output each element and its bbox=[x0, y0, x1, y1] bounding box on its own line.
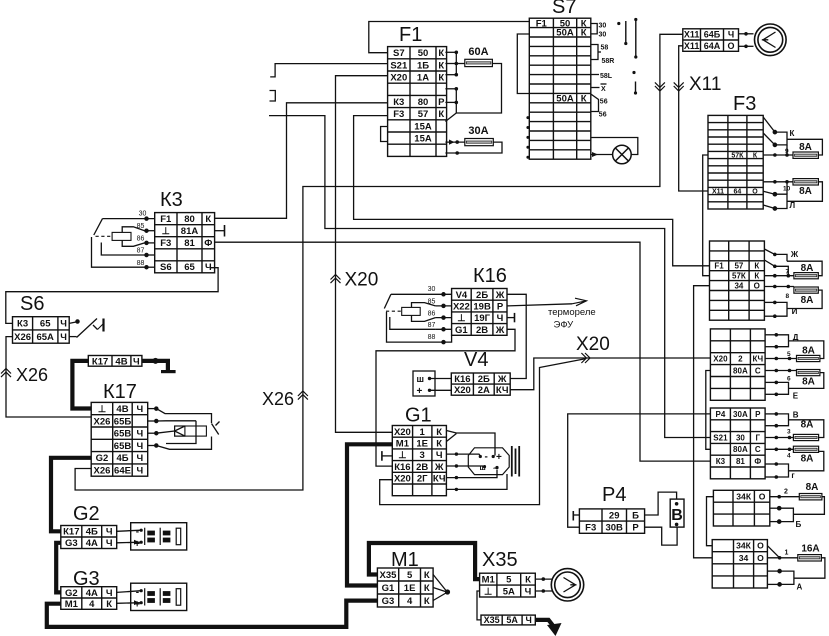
wire G1 row X20-2Г joining connector X20 bbox=[380, 359, 586, 505]
svg-text:Ч: Ч bbox=[137, 453, 144, 464]
fuse block connector table (57/34) bbox=[710, 241, 765, 320]
svg-text:⊥: ⊥ bbox=[398, 450, 407, 461]
svg-text:F3: F3 bbox=[585, 523, 596, 534]
svg-text:К: К bbox=[581, 94, 587, 105]
svg-text:К: К bbox=[581, 28, 587, 39]
svg-text:85: 85 bbox=[137, 223, 145, 230]
battery G3 symbol bbox=[131, 583, 187, 610]
wire 30А fuse loop bbox=[445, 141, 464, 143]
ground arrowhead bbox=[547, 623, 562, 636]
alternator G1 symbol bbox=[468, 446, 519, 477]
thick wire K17 row G2-4Б to battery G2 bbox=[51, 458, 91, 532]
svg-text:X26: X26 bbox=[14, 332, 31, 343]
svg-text:5А: 5А bbox=[506, 615, 518, 625]
wire X35 row 5А to ground block X35-5А bbox=[477, 591, 481, 620]
fuse block connector table (34К upper) bbox=[713, 490, 769, 526]
svg-text:X20: X20 bbox=[394, 427, 411, 438]
svg-text:F1: F1 bbox=[160, 214, 172, 225]
svg-text:9: 9 bbox=[785, 148, 789, 155]
contact б of fuse block bbox=[777, 506, 793, 523]
svg-text:Ч: Ч bbox=[436, 450, 443, 461]
svg-text:С: С bbox=[755, 366, 761, 375]
wire S7 to instrument lamp bbox=[591, 138, 638, 155]
svg-text:G1: G1 bbox=[405, 405, 432, 427]
svg-text:X20: X20 bbox=[394, 474, 411, 485]
svg-text:50А: 50А bbox=[556, 28, 574, 39]
svg-text:30А: 30А bbox=[468, 125, 488, 137]
svg-text:G2: G2 bbox=[96, 453, 109, 464]
svg-text:Ф: Ф bbox=[204, 238, 212, 249]
svg-text:6: 6 bbox=[787, 376, 791, 383]
svg-text:-: - bbox=[136, 587, 139, 598]
svg-text:50А: 50А bbox=[556, 94, 574, 105]
svg-text:2В: 2В bbox=[416, 462, 428, 473]
wire S7 row 50А to row 50А (left bracket) bbox=[517, 34, 529, 94]
svg-text:2: 2 bbox=[738, 355, 743, 364]
svg-text:Ч: Ч bbox=[106, 527, 113, 538]
svg-text:V4: V4 bbox=[456, 290, 468, 301]
terminal T-bar at P4 row 29 bbox=[573, 514, 579, 516]
svg-text:34К: 34К bbox=[736, 541, 752, 551]
svg-text:64Б: 64Б bbox=[704, 30, 721, 40]
svg-text:8А: 8А bbox=[801, 420, 814, 431]
svg-text:4А: 4А bbox=[86, 538, 98, 549]
svg-text:-: - bbox=[136, 527, 139, 538]
svg-text:80: 80 bbox=[418, 97, 429, 108]
svg-text:S6: S6 bbox=[160, 262, 172, 273]
svg-text:Ж: Ж bbox=[497, 374, 507, 385]
svg-text:5А: 5А bbox=[503, 587, 515, 598]
svg-text:Р4: Р4 bbox=[602, 484, 626, 506]
svg-text:4: 4 bbox=[407, 596, 413, 607]
contact а of fuse block bbox=[778, 569, 794, 586]
contact и of fuse block bbox=[764, 301, 774, 303]
relay K17 coil and contact symbol bbox=[148, 407, 220, 449]
connector X26 mark on lower vertical bbox=[298, 391, 308, 400]
svg-text:30В: 30В bbox=[605, 523, 623, 534]
svg-text:Ч: Ч bbox=[106, 538, 113, 549]
connector half-plug symbol bbox=[270, 91, 276, 102]
svg-text:Ч: Ч bbox=[525, 587, 532, 598]
svg-text:X26: X26 bbox=[94, 466, 111, 477]
wire V4 row X20-2А to fuse block row X20-2 via connector X20 bbox=[510, 358, 710, 390]
svg-text:Р: Р bbox=[755, 410, 761, 419]
svg-text:М1: М1 bbox=[396, 439, 410, 450]
starter M1 solenoid symbol bbox=[433, 575, 447, 592]
svg-text:К: К bbox=[424, 570, 430, 581]
svg-text:X26: X26 bbox=[94, 416, 111, 427]
svg-text:4В: 4В bbox=[116, 404, 128, 415]
svg-text:81: 81 bbox=[184, 238, 195, 249]
svg-text:64А: 64А bbox=[704, 41, 721, 51]
svg-text:К3: К3 bbox=[17, 319, 28, 330]
svg-text:К: К bbox=[438, 48, 444, 59]
fuse 8А (2) bbox=[799, 494, 822, 500]
wires G2 table to battery G2 bbox=[117, 530, 142, 531]
svg-text:X26: X26 bbox=[262, 389, 294, 409]
svg-text:О: О bbox=[757, 541, 764, 551]
svg-text:58: 58 bbox=[601, 45, 609, 52]
svg-text:Ч: Ч bbox=[106, 588, 113, 599]
svg-text:30: 30 bbox=[139, 211, 147, 218]
fuse 8А (4) bbox=[793, 446, 818, 452]
arrow to thermal relay (термореле ЭФУ) from K16 row X22-19В bbox=[507, 304, 572, 306]
connector table V4 bbox=[451, 373, 510, 395]
contact к of F3 bbox=[763, 117, 787, 147]
svg-text:X11: X11 bbox=[684, 30, 700, 40]
svg-text:58L: 58L bbox=[600, 73, 613, 80]
svg-text:X20: X20 bbox=[454, 385, 471, 396]
svg-text:64Е: 64Е bbox=[114, 466, 131, 477]
svg-text:X35: X35 bbox=[380, 570, 398, 581]
svg-text:50: 50 bbox=[418, 48, 429, 59]
svg-text:85: 85 bbox=[428, 298, 436, 305]
thick wire G3 row М1-4 to starter M1 row G3-4 along bottom bbox=[47, 601, 378, 627]
svg-text:О: О bbox=[759, 491, 766, 501]
svg-text:Ф: Ф bbox=[754, 457, 761, 466]
wire F3 fuse 10 row bbox=[763, 181, 793, 183]
svg-text:Ч: Ч bbox=[60, 319, 67, 330]
svg-text:В: В bbox=[671, 507, 683, 524]
svg-text:88: 88 bbox=[428, 334, 436, 341]
svg-text:+: + bbox=[496, 452, 502, 463]
svg-text:⊥: ⊥ bbox=[98, 404, 107, 415]
wires V4 box to V4 table bbox=[430, 378, 452, 380]
relay K17 connector table bbox=[91, 402, 148, 476]
starter motor circle symbol bbox=[551, 569, 583, 601]
connector X20 mark on vertical wire bbox=[331, 275, 341, 284]
svg-text:К: К bbox=[525, 575, 531, 586]
S7 terminal stubs 30/30 bbox=[591, 24, 597, 34]
svg-text:К3: К3 bbox=[160, 189, 183, 211]
svg-text:2А: 2А bbox=[478, 385, 490, 396]
svg-text:Ч: Ч bbox=[728, 30, 734, 40]
svg-text:2Г: 2Г bbox=[417, 474, 428, 485]
fuse 60А bbox=[465, 59, 493, 66]
svg-text:М1: М1 bbox=[65, 599, 79, 610]
svg-text:65Б: 65Б bbox=[114, 416, 132, 427]
S7 terminal stub X bbox=[591, 87, 600, 89]
fuse 8А (3) bbox=[793, 434, 818, 440]
contact в of fuse block bbox=[765, 413, 776, 415]
svg-text:КЧ: КЧ bbox=[433, 474, 446, 485]
wire X11 row 64Б to K17 row X26-64Е via connectors X11/X26 bbox=[75, 34, 683, 490]
svg-text:К3: К3 bbox=[716, 457, 726, 466]
svg-text:К16: К16 bbox=[473, 265, 507, 287]
svg-text:О: О bbox=[757, 553, 764, 563]
svg-text:К: К bbox=[436, 439, 442, 450]
contact л of F3 bbox=[763, 191, 787, 210]
device box V4 (glow plug) bbox=[413, 371, 435, 396]
wire block3 row 80А to fuse 6 bbox=[765, 370, 796, 372]
fuse 8А (8) bbox=[794, 287, 818, 293]
svg-text:16А: 16А bbox=[801, 544, 819, 555]
svg-text:S7: S7 bbox=[393, 48, 405, 59]
diagonal block6 row 34К to fuse 1 dot bbox=[767, 546, 779, 558]
svg-text:К: К bbox=[438, 60, 444, 71]
svg-text:X20: X20 bbox=[345, 270, 379, 291]
svg-text:5: 5 bbox=[407, 570, 413, 581]
svg-text:G1: G1 bbox=[455, 325, 468, 336]
battery G2 symbol bbox=[131, 523, 187, 550]
svg-text:15А: 15А bbox=[414, 121, 432, 132]
svg-text:К: К bbox=[424, 583, 430, 594]
contact е of fuse block bbox=[765, 381, 776, 383]
wires X11 to headlamp bbox=[739, 33, 754, 35]
svg-text:88: 88 bbox=[137, 260, 145, 267]
svg-text:Р: Р bbox=[632, 523, 639, 534]
svg-text:К: К bbox=[205, 214, 211, 225]
svg-text:8А: 8А bbox=[801, 263, 814, 274]
svg-text:65: 65 bbox=[40, 319, 51, 330]
svg-text:К16: К16 bbox=[454, 374, 470, 385]
thick ground wire K17-4В block to K17 row 4В bbox=[72, 361, 91, 409]
svg-text:8А: 8А bbox=[801, 295, 814, 306]
svg-text:65: 65 bbox=[184, 262, 195, 273]
wires G3 table to battery G3 bbox=[117, 591, 142, 593]
svg-text:К: К bbox=[106, 599, 112, 610]
svg-text:Ж: Ж bbox=[790, 250, 799, 259]
svg-text:4: 4 bbox=[89, 599, 95, 610]
svg-text:К: К bbox=[436, 427, 442, 438]
svg-text:2Б: 2Б bbox=[478, 374, 490, 385]
wire F1 row S7-50 to S7 row F1-50 bbox=[369, 22, 530, 53]
svg-text:87: 87 bbox=[137, 248, 145, 255]
wire F1 row X20-1А to G1 row X20-1 via connector X20 bbox=[336, 76, 393, 433]
wire G1 row М1-1Е to starter M1 row G1-1Е (thick) bbox=[347, 444, 392, 585]
alternator G1 connector table bbox=[392, 426, 446, 496]
wire S6 row X26-65А to K17 row X26-65Б bbox=[6, 337, 91, 417]
switch contacts of S6 bbox=[69, 319, 103, 338]
lamp symbol (circle with X) bbox=[613, 145, 632, 164]
pin dots on S7 left edge bbox=[526, 116, 529, 119]
wire K16 row G1-2В to G1 row К16-2В bbox=[376, 329, 515, 466]
connector X11 mark on right vertical bbox=[674, 82, 684, 91]
svg-text:86: 86 bbox=[137, 236, 145, 243]
wire X11 row 64А to F3 row X11-64 bbox=[679, 46, 708, 191]
relay K3 connector table bbox=[155, 213, 215, 273]
svg-text:57: 57 bbox=[418, 109, 429, 120]
svg-text:К3: К3 bbox=[393, 97, 404, 108]
svg-text:8А: 8А bbox=[801, 454, 814, 465]
svg-text:81: 81 bbox=[736, 457, 745, 466]
svg-text:К17: К17 bbox=[92, 356, 108, 367]
wire 60А fuse loop bbox=[456, 63, 465, 65]
contact ж of fuse block bbox=[764, 249, 774, 254]
fuse block connector table (34К/34 lower) bbox=[712, 540, 767, 588]
fuse block connector table (X20/80А) bbox=[710, 329, 765, 400]
svg-text:В: В bbox=[793, 411, 799, 420]
svg-text:X26: X26 bbox=[16, 365, 48, 385]
wire K3 row S6-65 to S6 row К3-65 bbox=[6, 268, 218, 324]
ground T-bar at G1 row 3 bbox=[382, 455, 392, 457]
connector table S6 switch bbox=[13, 317, 70, 344]
svg-text:С: С bbox=[755, 445, 761, 454]
svg-text:G3: G3 bbox=[382, 596, 395, 607]
wire block5 row 34К to block6 row 34К bbox=[707, 497, 714, 546]
wire block2 row 34 to fuse 8 bbox=[764, 286, 794, 288]
svg-text:КЧ: КЧ bbox=[496, 385, 509, 396]
relay K16 coil and contact symbol with pin numbers bbox=[384, 293, 451, 344]
wire K3 row 81А stub bbox=[215, 230, 225, 232]
svg-text:К: К bbox=[438, 73, 444, 84]
svg-text:5: 5 bbox=[506, 575, 512, 586]
svg-text:19Г: 19Г bbox=[474, 313, 491, 324]
svg-text:Е: Е bbox=[793, 392, 799, 401]
svg-text:Г: Г bbox=[756, 433, 761, 442]
svg-text:ЭФУ: ЭФУ bbox=[554, 320, 575, 331]
battery G2 connector table bbox=[61, 526, 117, 549]
svg-text:G2: G2 bbox=[65, 588, 78, 599]
svg-text:80А: 80А bbox=[733, 366, 748, 375]
S7 terminal stubs 56/56 bbox=[591, 94, 599, 112]
thick ground wire from block X35-5А to ground arrow bbox=[535, 620, 554, 628]
svg-text:К16: К16 bbox=[394, 462, 410, 473]
thick wire G2 row G3-4А to battery G3 bbox=[56, 543, 61, 593]
fuse block connector table (Р4/S21/К3) bbox=[710, 408, 765, 479]
svg-text:X20: X20 bbox=[713, 355, 728, 364]
connector block X35-5А ground bbox=[481, 615, 535, 625]
connector table F1 bbox=[388, 47, 447, 157]
svg-text:~: ~ bbox=[493, 464, 499, 475]
svg-text:Р4: Р4 bbox=[716, 410, 726, 419]
svg-text:ш: ш bbox=[417, 374, 425, 384]
svg-text:X11: X11 bbox=[712, 189, 724, 196]
svg-text:F3: F3 bbox=[160, 238, 171, 249]
svg-text:Ч: Ч bbox=[497, 313, 504, 324]
svg-text:34К: 34К bbox=[736, 491, 752, 501]
svg-text:86: 86 bbox=[428, 310, 436, 317]
svg-text:X11: X11 bbox=[684, 41, 700, 51]
svg-text:Ч: Ч bbox=[137, 429, 144, 440]
svg-text:G2: G2 bbox=[73, 503, 100, 525]
wire P4 row F3-30В to fuse block row Р4-30А bbox=[568, 414, 711, 527]
wire block2 row 57К to fuse 7 bbox=[764, 275, 794, 277]
relay K16 connector table bbox=[452, 289, 507, 336]
fuse 8А (7) bbox=[794, 273, 818, 279]
contact д of fuse block bbox=[765, 334, 776, 336]
connector table S7 ignition switch bbox=[529, 18, 591, 159]
svg-text:Ч: Ч bbox=[133, 356, 140, 367]
svg-text:2: 2 bbox=[784, 489, 788, 496]
svg-text:8А: 8А bbox=[806, 482, 819, 493]
svg-text:Б: Б bbox=[796, 520, 802, 529]
wire 80А row of block3 to 80А row of block4 bbox=[706, 371, 711, 450]
svg-text:19В: 19В bbox=[473, 302, 491, 313]
svg-text:F3: F3 bbox=[733, 93, 756, 115]
svg-text:Ж: Ж bbox=[434, 462, 444, 473]
svg-text:Х35: Х35 bbox=[482, 549, 518, 571]
svg-text:30: 30 bbox=[736, 433, 745, 442]
svg-text:2В: 2В bbox=[476, 325, 488, 336]
relay K3 coil and contact symbol with pin numbers bbox=[92, 217, 155, 269]
ground bar at K3 row 81А bbox=[224, 225, 226, 237]
fuse 30А bbox=[465, 139, 494, 146]
svg-text:29: 29 bbox=[609, 510, 620, 521]
svg-text:Р: Р bbox=[438, 97, 445, 108]
svg-text:Ч: Ч bbox=[526, 615, 532, 625]
wire F1 row F3-57 to fuse block row F1-57 bbox=[354, 116, 710, 266]
svg-text:7: 7 bbox=[786, 269, 790, 276]
svg-text:4Б: 4Б bbox=[86, 527, 98, 538]
svg-text:X11: X11 bbox=[689, 74, 721, 95]
svg-text:Ч: Ч bbox=[137, 441, 144, 452]
svg-text:Л: Л bbox=[790, 201, 796, 210]
svg-text:Ч: Ч bbox=[137, 466, 144, 477]
svg-text:К: К bbox=[754, 262, 759, 271]
svg-text:S6: S6 bbox=[20, 293, 44, 315]
svg-text:4Б: 4Б bbox=[116, 453, 128, 464]
svg-text:1Е: 1Е bbox=[404, 583, 416, 594]
fuse 8А (6) bbox=[797, 370, 820, 376]
svg-text:65В: 65В bbox=[114, 441, 132, 452]
svg-text:80А: 80А bbox=[733, 445, 748, 454]
svg-text:1А: 1А bbox=[417, 73, 429, 84]
ground bar symbol bbox=[161, 370, 176, 373]
connector table X11 headlamp bbox=[683, 29, 739, 52]
wire block6 row 34 to fuse 1 bbox=[767, 557, 797, 559]
wire block2 row 34 to block6 row 34 bbox=[694, 286, 713, 558]
svg-text:30: 30 bbox=[599, 32, 607, 39]
connector table X35 bbox=[480, 573, 536, 597]
svg-text:Ж: Ж bbox=[495, 325, 505, 336]
connector X11 mark on left vertical bbox=[655, 82, 665, 91]
fuse feed dots on F1 right edge bbox=[445, 51, 456, 53]
fuse 16А bbox=[798, 555, 822, 561]
svg-text:М1: М1 bbox=[482, 575, 496, 586]
fuse 8А (10) bbox=[793, 179, 818, 185]
svg-text:⊥: ⊥ bbox=[162, 226, 171, 237]
svg-text:30А: 30А bbox=[733, 410, 748, 419]
svg-text:57К: 57К bbox=[731, 153, 744, 160]
svg-text:30: 30 bbox=[428, 286, 436, 293]
svg-text:F3: F3 bbox=[393, 109, 404, 120]
svg-text:3: 3 bbox=[420, 450, 425, 461]
battery G3 connector table bbox=[61, 587, 117, 610]
svg-text:1Б: 1Б bbox=[417, 60, 429, 71]
fuse 8А (5) bbox=[797, 355, 820, 361]
wire relay K3 row F3-81 to fuse block row К3-81 bbox=[215, 242, 711, 461]
contact г of fuse block bbox=[765, 463, 776, 465]
wire P4 row 30В-Р to voltmeter bottom bbox=[645, 527, 678, 545]
svg-text:-: - bbox=[485, 452, 488, 463]
svg-text:G1: G1 bbox=[382, 583, 395, 594]
wire plug S21 to fuse block row S21-30 bbox=[269, 116, 710, 438]
svg-text:А: А bbox=[797, 583, 803, 592]
wire fuse 9 return to contact К bbox=[787, 139, 822, 155]
svg-text:К: К bbox=[424, 596, 430, 607]
svg-text:термореле: термореле bbox=[548, 307, 596, 318]
wires X35 to starter motor circle bbox=[535, 578, 552, 580]
S7 ignition position bars bbox=[617, 22, 620, 25]
svg-text:X: X bbox=[601, 86, 606, 93]
starter M1 connector table bbox=[377, 568, 433, 607]
svg-text:1: 1 bbox=[420, 427, 426, 438]
svg-text:64: 64 bbox=[734, 189, 742, 196]
voltmeter В box bbox=[670, 499, 684, 527]
wire block3 row X20-2 to fuse 5 bbox=[765, 358, 796, 360]
svg-text:3: 3 bbox=[787, 429, 791, 436]
svg-text:+: + bbox=[417, 386, 423, 397]
svg-text:80: 80 bbox=[184, 214, 195, 225]
connector block К17-4В ground bbox=[88, 356, 142, 367]
svg-text:56: 56 bbox=[599, 112, 607, 119]
svg-text:8: 8 bbox=[786, 293, 790, 300]
svg-text:V4: V4 bbox=[464, 349, 488, 371]
svg-text:8А: 8А bbox=[799, 142, 812, 153]
svg-text:1: 1 bbox=[785, 550, 789, 557]
svg-text:О: О bbox=[727, 41, 734, 51]
